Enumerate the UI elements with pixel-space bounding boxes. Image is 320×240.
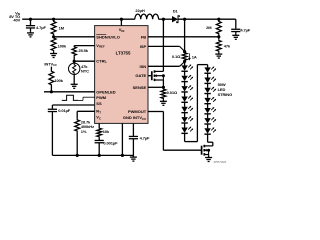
svg-text:ISN: ISN	[140, 64, 147, 69]
svg-text:STRING: STRING	[218, 92, 233, 97]
svg-text:40V: 40V	[13, 18, 20, 23]
svg-text:PWMOUT: PWMOUT	[128, 109, 147, 114]
svg-text:GND INTVCC: GND INTVCC	[123, 115, 146, 121]
svg-text:LT3755: LT3755	[116, 50, 131, 55]
svg-text:0.01Ω: 0.01Ω	[167, 90, 178, 95]
svg-text:100k: 100k	[54, 78, 63, 83]
svg-text:GATE: GATE	[135, 73, 146, 78]
svg-text:0.01µF: 0.01µF	[58, 108, 71, 113]
svg-text:47k: 47k	[224, 43, 231, 48]
svg-text:SS: SS	[96, 101, 102, 106]
svg-text:VREF: VREF	[96, 43, 105, 49]
svg-text:10k: 10k	[103, 129, 110, 134]
svg-text:ISP: ISP	[140, 44, 147, 49]
svg-text:1A: 1A	[192, 55, 197, 60]
svg-text:3755 TA01: 3755 TA01	[214, 160, 227, 164]
svg-text:1M: 1M	[59, 26, 65, 31]
svg-text:4.7µF: 4.7µF	[240, 27, 250, 32]
svg-text:2M: 2M	[206, 25, 212, 30]
svg-text:4.7µF: 4.7µF	[140, 135, 150, 140]
svg-text:D1: D1	[173, 9, 179, 14]
svg-text:4.7µF: 4.7µF	[36, 25, 46, 30]
svg-text:OPENLED: OPENLED	[96, 89, 115, 94]
svg-text:CTRL: CTRL	[96, 59, 107, 64]
svg-text:INTVCC: INTVCC	[44, 61, 57, 67]
svg-text:0.001µF: 0.001µF	[103, 140, 118, 145]
svg-text:RT: RT	[96, 109, 101, 115]
svg-text:FB: FB	[141, 34, 146, 39]
svg-text:SENSE: SENSE	[133, 85, 147, 90]
svg-text:VC: VC	[96, 115, 101, 121]
svg-text:25.5k: 25.5k	[78, 48, 88, 53]
svg-text:PWM: PWM	[96, 95, 106, 100]
svg-text:1%: 1%	[81, 129, 87, 134]
svg-text:NTC: NTC	[81, 69, 89, 74]
svg-text:0.1Ω: 0.1Ω	[172, 54, 181, 59]
svg-text:VIN: VIN	[119, 27, 125, 33]
svg-text:22µH: 22µH	[135, 8, 144, 13]
svg-text:100k: 100k	[58, 43, 67, 48]
svg-text:SHDN/UVLO: SHDN/UVLO	[96, 34, 120, 39]
